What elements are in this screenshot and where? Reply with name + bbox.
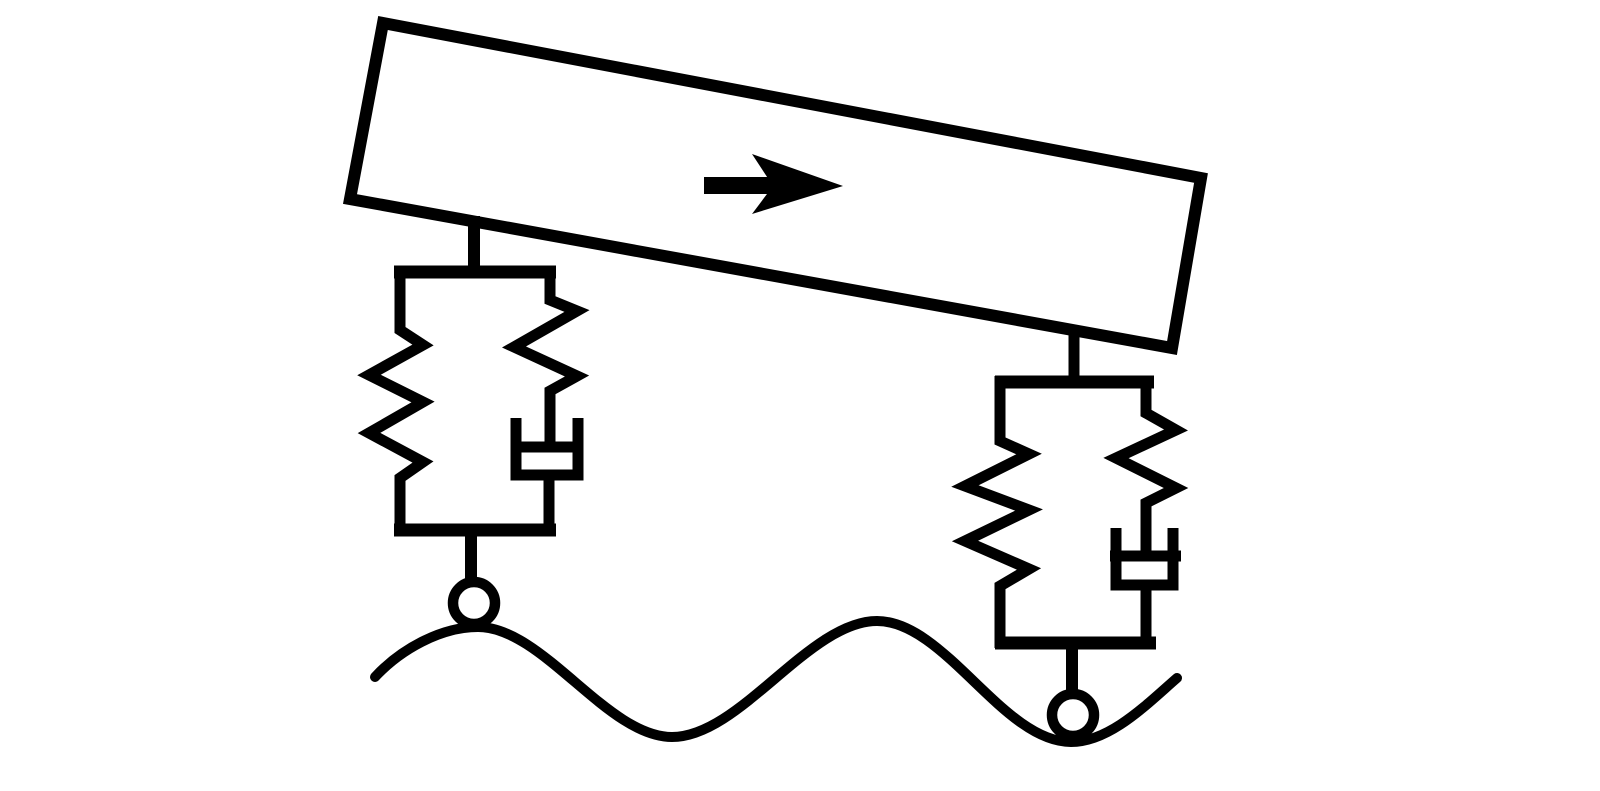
left suspension top bar [394, 266, 556, 279]
vehicle body (sprung mass, tilted rectangle) [350, 23, 1201, 348]
right damper piston [1110, 551, 1181, 562]
left spring K1 [369, 266, 423, 535]
left axle rod [465, 530, 477, 585]
right suspension bottom bar [995, 637, 1156, 650]
left connecting rod (body to left suspension) [468, 216, 480, 272]
left damper lower rod [544, 475, 555, 535]
right wheel [1052, 694, 1094, 736]
right spring K2 [965, 376, 1029, 648]
right damper upper rod with spring link [1116, 376, 1176, 553]
right connecting rod (body to right suspension) [1069, 330, 1080, 382]
left damper cylinder cup [516, 418, 578, 475]
left damper piston [511, 442, 583, 453]
velocity arrow (direction of travel) [704, 154, 843, 214]
right damper lower rod [1141, 585, 1152, 648]
left wheel [453, 582, 495, 624]
right axle rod [1066, 643, 1078, 693]
right damper cylinder cup [1116, 528, 1173, 585]
left damper upper rod with spring link [514, 266, 577, 443]
right suspension top bar [995, 376, 1154, 389]
left suspension bottom bar [394, 524, 556, 537]
road surface (wavy ground profile) [375, 621, 1177, 742]
